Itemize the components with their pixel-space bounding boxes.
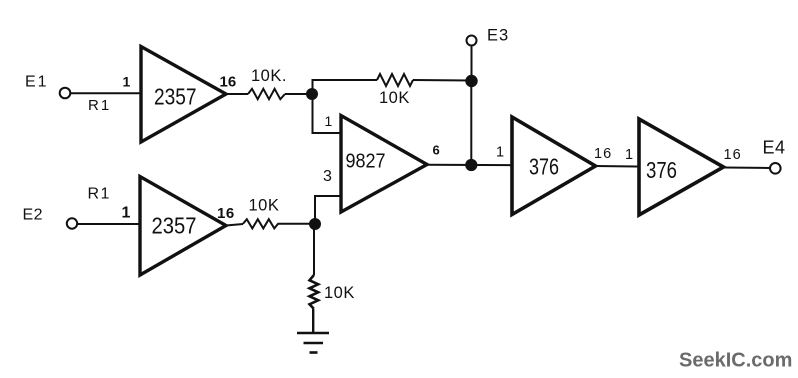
svg-text:10K: 10K	[379, 89, 410, 107]
svg-text:16: 16	[220, 74, 237, 91]
wire	[226, 224, 243, 226]
svg-text:R1: R1	[88, 97, 111, 114]
op-amp U4 376	[512, 117, 596, 215]
junction node C	[309, 218, 321, 230]
svg-text:1: 1	[625, 147, 633, 163]
svg-text:6: 6	[433, 143, 440, 158]
svg-text:9827: 9827	[346, 151, 386, 173]
wire	[71, 92, 141, 94]
svg-text:E3: E3	[487, 27, 509, 45]
junction node A	[306, 88, 318, 100]
svg-text:10K: 10K	[249, 197, 280, 215]
wire	[78, 223, 140, 225]
wire	[226, 93, 248, 95]
op-amp U2 2357	[140, 177, 226, 276]
svg-text:10K: 10K	[324, 284, 355, 302]
op-amp U1 2357	[141, 47, 226, 143]
terminal E4	[770, 163, 781, 174]
svg-text:3: 3	[323, 168, 332, 185]
wire	[313, 94, 342, 133]
wire	[724, 167, 770, 170]
svg-text:1: 1	[496, 145, 504, 161]
wire	[278, 223, 316, 225]
resistor 10K (to ground)	[310, 275, 319, 309]
resistor 10K (U1 output)	[248, 89, 285, 99]
wire	[312, 309, 314, 333]
junction node B	[465, 159, 477, 171]
svg-text:376: 376	[529, 154, 559, 180]
junction node E3	[465, 75, 477, 87]
svg-text:16: 16	[724, 147, 742, 163]
terminal E3	[467, 36, 477, 46]
svg-text:E2: E2	[23, 207, 44, 224]
svg-text:E4: E4	[763, 138, 786, 158]
terminal E2	[67, 218, 77, 228]
op-amp U3 9827	[341, 116, 427, 213]
ground	[297, 333, 329, 353]
svg-text:SeekIC.com: SeekIC.com	[679, 350, 792, 372]
svg-text:1: 1	[123, 74, 131, 90]
wire	[470, 81, 472, 165]
resistor 10K (feedback)	[377, 74, 413, 86]
svg-text:2357: 2357	[154, 84, 197, 110]
svg-text:16: 16	[594, 146, 612, 162]
wire	[596, 165, 640, 168]
svg-text:1: 1	[325, 113, 333, 129]
svg-text:376: 376	[646, 157, 677, 183]
svg-text:E1: E1	[25, 74, 49, 91]
wire	[471, 46, 473, 81]
terminal E1	[60, 88, 71, 99]
wire pin3	[315, 196, 341, 224]
wire	[313, 80, 378, 94]
svg-text:2357: 2357	[152, 213, 197, 239]
svg-text:10K.: 10K.	[251, 67, 287, 85]
svg-text:R1: R1	[88, 186, 111, 203]
svg-text:16: 16	[217, 205, 235, 222]
wire	[285, 93, 312, 95]
wire	[413, 79, 472, 82]
svg-text:1: 1	[122, 205, 131, 222]
wire	[313, 224, 315, 275]
op-amp U5 376	[639, 119, 724, 215]
resistor 10K (U2 output)	[243, 219, 278, 228]
wire	[427, 164, 512, 167]
